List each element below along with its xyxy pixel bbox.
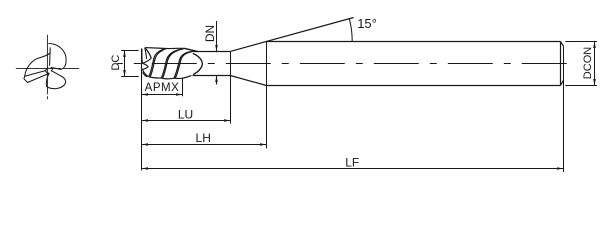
svg-text:DCON: DCON xyxy=(582,47,594,79)
svg-text:DN: DN xyxy=(203,25,217,42)
svg-text:LF: LF xyxy=(345,155,359,169)
svg-text:LH: LH xyxy=(196,131,211,145)
svg-text:LU: LU xyxy=(178,108,193,122)
svg-text:15°: 15° xyxy=(357,16,377,31)
svg-text:DC: DC xyxy=(110,55,122,71)
svg-text:APMX: APMX xyxy=(145,82,180,94)
